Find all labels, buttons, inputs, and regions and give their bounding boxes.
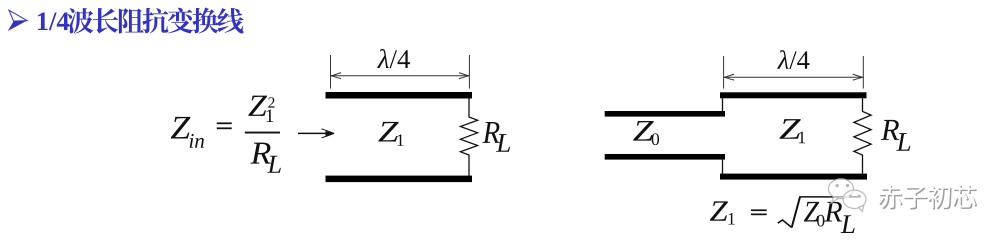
title text CJK <box>67 8 93 33</box>
formula Z_in <box>171 117 191 139</box>
top bar <box>326 92 473 99</box>
watermark text <box>879 186 902 209</box>
dimension arrow line <box>724 76 864 78</box>
left diagram dimension tick left <box>330 55 332 89</box>
lambda/4 label <box>777 50 788 69</box>
radical vinculum <box>799 196 861 198</box>
Z1 label <box>779 119 800 139</box>
logo eyes <box>836 184 861 198</box>
R_L label <box>482 122 499 143</box>
Z0 top bar <box>605 111 725 117</box>
arrow <box>298 132 331 134</box>
Z0 label <box>633 121 654 141</box>
front bubble tail <box>859 205 864 211</box>
R_L label <box>881 120 899 140</box>
Z1 bottom bar <box>720 174 867 180</box>
watermark wechat logo <box>828 179 866 212</box>
Z0 bottom bar <box>605 154 725 160</box>
denominator R_L <box>250 143 270 164</box>
radical diagonal <box>792 197 800 228</box>
back bubble tail <box>831 197 838 203</box>
lambda/4 label <box>377 49 389 68</box>
Z1 top bar <box>720 92 867 98</box>
back bubble <box>828 179 853 199</box>
resistor R_L <box>854 98 871 174</box>
step connector bottom <box>722 159 724 174</box>
dimension tick right <box>862 56 864 89</box>
title bullet arrow <box>8 10 27 31</box>
dimension arrow line <box>331 75 470 77</box>
numerator Z1^2 <box>248 96 267 116</box>
fraction bar <box>245 132 280 134</box>
equals <box>217 122 232 124</box>
step connector top <box>722 98 724 112</box>
resistor R_L <box>460 98 477 175</box>
dimension tick right <box>468 55 470 89</box>
radical hook <box>778 220 792 228</box>
front bubble <box>843 190 866 208</box>
right diagram dimension tick left <box>723 56 725 89</box>
bottom bar <box>326 176 473 183</box>
formula Z1 = sqrt(Z0 RL) <box>710 201 728 220</box>
Z1 label <box>378 122 398 142</box>
title text 1/4 <box>38 13 48 30</box>
